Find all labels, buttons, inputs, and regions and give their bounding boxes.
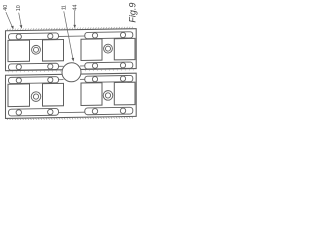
rail connector stubs lower top row [59, 78, 85, 80]
arrowhead 44 [73, 25, 76, 28]
upper plate: top-right tab [85, 32, 133, 39]
lower plate: top-left tab hole 2 [48, 77, 53, 82]
hatching below bottom edge of plate 11 [7, 117, 133, 121]
arrowhead 11 [72, 58, 75, 62]
upper plate: square pad 1 [8, 40, 30, 62]
lower plate: top-right tab hole 1 [92, 76, 97, 81]
rail connector upper top row [59, 35, 85, 37]
lower plate: bottom-right tab hole 2 [120, 108, 125, 113]
lower plate: square pad 4 [114, 82, 135, 105]
upper plate: bottom-right tab hole 1 [92, 63, 97, 68]
upper plate: bottom-left tab hole 1 [16, 64, 21, 69]
upper plate: bolt ring left outer [32, 45, 41, 54]
lower plate: top-right tab hole 2 [120, 76, 125, 81]
upper plate: top-left tab hole 2 [48, 34, 53, 39]
hatching above top edge of plate 10 [7, 27, 133, 31]
svg-text:10: 10 [16, 5, 22, 11]
lower plate body (part 11) [6, 73, 137, 118]
lower plate: square pad 3 [81, 83, 102, 106]
upper plate: bottom-right tab [85, 62, 133, 69]
upper plate: bolt ring left inner [34, 47, 39, 52]
leader line for label 10 [19, 13, 22, 27]
upper plate: top-right tab hole 2 [120, 32, 125, 37]
upper plate: bolt ring right outer [104, 44, 113, 53]
lower plate: top-left tab hole 1 [16, 78, 21, 83]
upper plate: square pad 3 [81, 39, 102, 61]
lower plate: square pad 2 [43, 83, 64, 106]
lower plate: bottom-right tab [85, 107, 133, 115]
upper plate: bolt ring right inner [106, 46, 111, 51]
central alignment hole 44 (erases plate edges beneath) [62, 63, 81, 82]
lower plate: bottom-right tab hole 1 [92, 108, 97, 113]
upper plate body (part 10) [6, 29, 137, 71]
leader line for label 40 [6, 12, 13, 28]
upper plate: bottom-right tab hole 2 [120, 63, 125, 68]
lower plate: square pad 1 [8, 84, 30, 107]
upper plate: bottom-left tab [9, 63, 59, 70]
arrowhead 10 [20, 25, 23, 29]
hatching in gap between plates [8, 69, 134, 72]
lower plate: bolt ring left outer [31, 92, 41, 102]
lower plate: bottom-left tab [9, 108, 59, 116]
lower plate: bolt ring left inner [33, 94, 38, 99]
lower plate: bolt ring right outer [103, 91, 113, 101]
lower plate: top-right tab [85, 75, 133, 82]
upper plate: top-left tab [9, 33, 59, 40]
lower plate: top-left tab [9, 77, 59, 84]
lower plate: bolt ring right inner [105, 93, 110, 98]
lower plate: bottom-left tab hole 1 [16, 110, 21, 115]
upper plate: bottom-left tab hole 2 [48, 64, 53, 69]
leader line for label 44 [74, 11, 76, 26]
svg-text:40: 40 [3, 5, 9, 11]
svg-text:44: 44 [73, 5, 79, 11]
lower plate: bottom-left tab hole 2 [48, 109, 53, 114]
upper plate: top-right tab hole 1 [92, 33, 97, 38]
upper plate: square pad 2 [43, 40, 64, 62]
upper plate: square pad 4 [114, 38, 135, 60]
rail connector stubs upper bottom row [59, 65, 85, 67]
upper plate: top-left tab hole 1 [16, 34, 21, 39]
arrowhead 40 [11, 26, 14, 30]
leader line for label 11 [64, 11, 73, 59]
svg-text:Fig.9: Fig.9 [128, 3, 138, 23]
rail connector lower bottom row [59, 111, 85, 113]
